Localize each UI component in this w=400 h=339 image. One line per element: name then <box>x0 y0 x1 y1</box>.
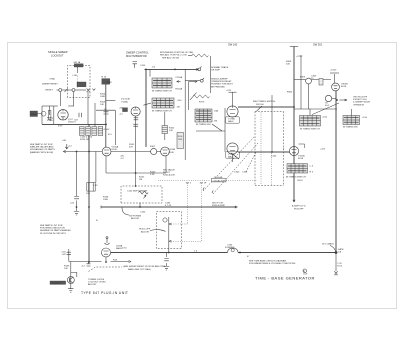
svg-text:220K: 220K <box>178 139 183 141</box>
svg-text:IN TIMING SWITCH: IN TIMING SWITCH <box>286 177 306 179</box>
svg-text:SW 1F: SW 1F <box>200 183 207 185</box>
svg-text:TD B: TD B <box>337 266 343 268</box>
svg-text:C160: C160 <box>271 156 277 158</box>
svg-text:SW 160: SW 160 <box>228 43 238 47</box>
svg-text:R140 1M: R140 1M <box>80 139 89 141</box>
svg-text:R160-B SWP: R160-B SWP <box>212 205 226 207</box>
svg-text:C150: C150 <box>140 65 146 67</box>
svg-text:6AU6: 6AU6 <box>228 120 234 123</box>
svg-text:C160 AB: C160 AB <box>214 176 223 179</box>
svg-text:4.7-25: 4.7-25 <box>165 205 172 207</box>
svg-text:W OUTLINE IN CIRCUITS: W OUTLINE IN CIRCUITS <box>40 233 66 235</box>
svg-text:ADJUST: ADJUST <box>131 217 140 220</box>
svg-text:IN TIMING SW: IN TIMING SW <box>196 124 211 126</box>
svg-text:SW 160: SW 160 <box>256 104 265 106</box>
svg-text:+150V: +150V <box>106 82 113 84</box>
svg-text:+19.6: +19.6 <box>121 248 127 250</box>
svg-text:SWEEP CONTROL: SWEEP CONTROL <box>126 51 149 55</box>
svg-text:10K: 10K <box>100 104 104 106</box>
svg-text:+150V: +150V <box>103 129 110 131</box>
svg-text:+150V: +150V <box>330 70 337 72</box>
svg-text:SEL IF CKT: SEL IF CKT <box>212 202 224 204</box>
svg-text:6DJ8: 6DJ8 <box>341 86 347 88</box>
svg-text:NUMBER OF PARTS MARKED: NUMBER OF PARTS MARKED <box>40 229 71 232</box>
svg-text:C161: C161 <box>242 172 248 174</box>
svg-text:1M: 1M <box>177 107 180 109</box>
svg-text:TIME - BASE GENERATOR: TIME - BASE GENERATOR <box>255 275 315 280</box>
svg-text:C150A: C150A <box>175 76 182 79</box>
svg-text:L160: L160 <box>73 75 79 77</box>
svg-text:OR SWP: OR SWP <box>211 70 220 72</box>
svg-text:HOLD-OFF: HOLD-OFF <box>139 229 151 231</box>
svg-text:+225V: +225V <box>296 56 303 58</box>
svg-text:10K: 10K <box>64 268 68 270</box>
svg-text:IN TIMING SWITCH: IN TIMING SWITCH <box>152 91 172 93</box>
svg-text:PICKOFF: PICKOFF <box>294 209 304 211</box>
svg-text:6DJ8: 6DJ8 <box>298 158 304 160</box>
svg-text:SEE TIME BASE CIRCUIT DIAGRAM: SEE TIME BASE CIRCUIT DIAGRAM <box>249 260 286 263</box>
svg-text:A: A <box>303 269 305 273</box>
svg-text:10K: 10K <box>286 64 290 66</box>
svg-text:EARLIER VALUES AND: EARLIER VALUES AND <box>30 146 54 149</box>
svg-text:IN TIMING SW: IN TIMING SW <box>343 127 358 129</box>
svg-text:FOR WAVEFORMS & VOLTAGE CONDIT: FOR WAVEFORMS & VOLTAGE CONDITIONS <box>249 262 296 265</box>
svg-text:MULTIVIBRATOR: MULTIVIBRATOR <box>126 54 147 58</box>
svg-text:TYPE 547 PLUG-IN UNIT: TYPE 547 PLUG-IN UNIT <box>81 291 128 295</box>
svg-text:SW 1A: SW 1A <box>73 61 80 64</box>
svg-text:IN TIMING SWITCH: IN TIMING SWITCH <box>152 111 172 113</box>
svg-text:6AU6: 6AU6 <box>228 156 234 159</box>
svg-text:+150: +150 <box>177 100 183 102</box>
svg-text:10A: 10A <box>214 110 218 113</box>
svg-text:R150A: R150A <box>175 88 182 91</box>
svg-text:MFD TIMING SWITCH: MFD TIMING SWITCH <box>253 101 276 103</box>
svg-text:SW 301: SW 301 <box>313 43 323 47</box>
svg-text:LOCKOUT: LOCKOUT <box>51 54 64 58</box>
svg-text:C160: C160 <box>234 172 240 174</box>
svg-text:100K: 100K <box>100 96 106 98</box>
svg-text:47K: 47K <box>129 147 133 149</box>
svg-text:ADJUST: ADJUST <box>88 283 97 286</box>
svg-text:C160-A1 SWP: C160-A1 SWP <box>213 179 227 182</box>
svg-text:V173A: V173A <box>228 118 235 121</box>
svg-text:OPERATION: OPERATION <box>353 103 365 106</box>
svg-text:SEE PARTS LIST FOR: SEE PARTS LIST FOR <box>30 143 53 146</box>
svg-text:BE PRESSED: BE PRESSED <box>211 86 225 88</box>
svg-text:(SEE SWEEP RESET PICKOFF AND T: (SEE SWEEP RESET PICKOFF AND TIME <box>123 265 166 268</box>
svg-text:LOCKOUT: LOCKOUT <box>51 283 62 285</box>
svg-text:10K: 10K <box>169 130 173 132</box>
svg-text:INTENSIFIED PORTION OF TRA: INTENSIFIED PORTION OF TRA <box>160 51 193 54</box>
svg-text:100K: 100K <box>103 199 109 201</box>
svg-text:FORMED: FORMED <box>225 247 235 249</box>
svg-text:SWEEP RESET: SWEEP RESET <box>42 84 58 86</box>
svg-text:R175: R175 <box>199 102 205 104</box>
svg-text:V135B: V135B <box>169 149 176 151</box>
svg-text:R160-A 10K: R160-A 10K <box>163 174 175 177</box>
svg-text:+225: +225 <box>320 149 326 151</box>
svg-text:C160: C160 <box>140 211 146 213</box>
svg-text:SEL VALUE: SEL VALUE <box>163 169 175 172</box>
svg-text:DLY CABLE: DLY CABLE <box>322 243 334 246</box>
svg-text:RESET: RESET <box>31 114 39 116</box>
svg-text:6DJ8: 6DJ8 <box>169 152 175 154</box>
svg-text:B167: B167 <box>150 146 156 148</box>
svg-text:ADJUST: ADJUST <box>141 231 150 234</box>
svg-text:1M: 1M <box>214 121 217 123</box>
svg-text:SINGLE SWEEP: SINGLE SWEEP <box>48 50 68 54</box>
svg-text:B 67: B 67 <box>58 126 63 128</box>
svg-text:BASE GEN CKT DIAG): BASE GEN CKT DIAG) <box>128 268 151 271</box>
svg-text:V135A: V135A <box>121 101 128 104</box>
svg-text:V135A: V135A <box>112 145 119 148</box>
svg-text:6DJ8: 6DJ8 <box>112 149 118 151</box>
svg-text:10K: 10K <box>86 193 90 195</box>
svg-text:1M: 1M <box>139 179 142 181</box>
svg-text:C183: C183 <box>227 244 233 246</box>
svg-text:+150: +150 <box>362 117 368 119</box>
svg-text:SEE ADJ ON SW: SEE ADJ ON SW <box>162 56 180 59</box>
svg-text:NORMAL TRACE: NORMAL TRACE <box>211 66 229 69</box>
svg-text:SEE PARTS LIST FOR: SEE PARTS LIST FOR <box>40 224 63 227</box>
svg-text:+225: +225 <box>226 90 232 92</box>
svg-text:5.2K: 5.2K <box>150 174 155 176</box>
svg-text:B303: B303 <box>300 77 306 79</box>
svg-text:675A: 675A <box>50 77 56 80</box>
svg-text:2N2207: 2N2207 <box>68 121 76 123</box>
svg-text:V161A: V161A <box>298 155 305 158</box>
svg-text:R 16: R 16 <box>102 77 107 79</box>
svg-text:SW 1: SW 1 <box>186 183 192 185</box>
svg-text:R303: R303 <box>287 92 293 94</box>
svg-text:OPERATION RESET: OPERATION RESET <box>211 80 232 83</box>
svg-text:RES ADJ. FOR FULL CCW: RES ADJ. FOR FULL CCW <box>160 54 188 57</box>
svg-text:R161: R161 <box>298 180 304 182</box>
svg-text:1/2 6DJ8: 1/2 6DJ8 <box>121 99 131 101</box>
svg-text:K 42: K 42 <box>93 185 98 187</box>
svg-text:FOR AUTO SGL: FOR AUTO SGL <box>353 98 367 101</box>
svg-text:C160 SWP LENGTH: C160 SWP LENGTH <box>127 191 148 193</box>
svg-text:R166: R166 <box>178 136 183 138</box>
svg-text:[MARKED WITH BLUE]: [MARKED WITH BLUE] <box>30 151 53 154</box>
svg-text:S/N RANGES OF PARTS: S/N RANGES OF PARTS <box>30 148 55 151</box>
svg-text:+150: +150 <box>322 117 328 119</box>
svg-text:A SWP DLY'D: A SWP DLY'D <box>292 205 306 208</box>
svg-text:1 A: 1 A <box>338 250 342 253</box>
svg-text:IN TIMING SWITCH: IN TIMING SWITCH <box>300 129 320 131</box>
svg-text:RESET: RESET <box>46 89 54 91</box>
